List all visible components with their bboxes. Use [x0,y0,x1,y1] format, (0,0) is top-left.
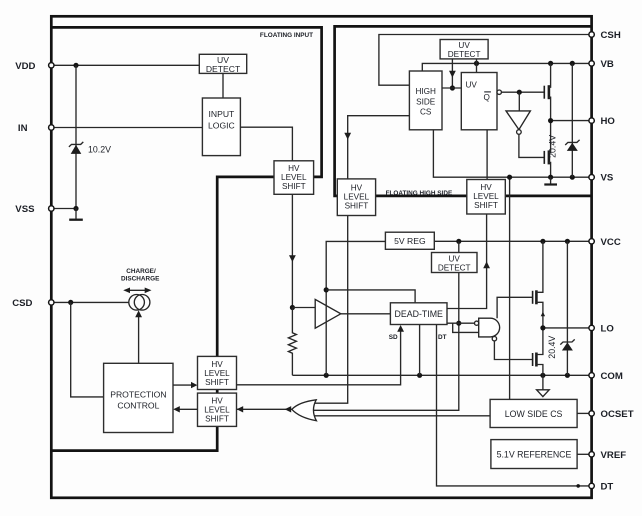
wire COM internal rail [292,374,591,376]
node inverter tap junction [517,90,522,95]
pin CSH [589,32,594,37]
transistor M3 low side upper FET [532,291,534,304]
pin VDD [49,63,54,68]
wire VSS stub [51,208,76,210]
svg-text:10.2V: 10.2V [88,145,111,155]
wire SD line to dead-time (arrow up) [237,331,401,385]
node HO junction [548,118,553,123]
svg-text:CSD: CSD [12,298,32,309]
svg-text:LO: LO [601,323,615,334]
svg-text:HIGH: HIGH [415,87,436,96]
wire CSD to protection control [71,302,104,397]
pin DT [589,483,594,488]
wire IN rail [51,127,202,129]
wire 5V bus to dead-time top [326,290,415,303]
svg-text:OCSET: OCSET [601,409,634,420]
svg-text:DISCHARGE: DISCHARGE [121,276,160,283]
wire inverter output to high side lower FET gate [519,134,544,157]
wire latch output to high side upper FET gate [501,91,544,93]
wire UV detect to input logic [222,73,224,98]
node DT stub [576,484,580,488]
transistor M1 high side upper FET [543,86,545,99]
svg-text:VCC: VCC [601,237,621,248]
wire low side zener branch VCC to COM [566,241,568,375]
wire high side zener branch VB to VS [571,63,573,177]
svg-text:DETECT: DETECT [448,50,481,59]
svg-text:LEVEL: LEVEL [204,369,230,378]
inverter U5 [518,92,520,111]
svg-text:FLOATING INPUT: FLOATING INPUT [260,32,313,39]
wire LO rail [543,327,592,329]
wire UV detect output to NAND and OR [313,273,458,411]
svg-text:SHIFT: SHIFT [474,201,498,210]
svg-text:CHARGE/: CHARGE/ [126,268,156,275]
svg-text:20.4V: 20.4V [547,135,557,158]
svg-text:HO: HO [601,116,616,127]
pin IN [49,125,54,130]
wire UV detect to VB [476,59,478,73]
svg-text:SHIFT: SHIFT [282,182,306,191]
svg-text:UV: UV [458,41,470,50]
HV level shift LS1 block [198,356,237,389]
svg-text:HV: HV [211,360,223,369]
node VS junctions [507,175,512,180]
wire zener branch VDD to VSS [75,65,77,208]
svg-text:DEAD-TIME: DEAD-TIME [395,309,444,319]
pin LO [589,325,594,330]
svg-text:VDD: VDD [15,61,35,72]
node CSD junction [68,300,73,305]
svg-text:5V REG: 5V REG [394,236,426,246]
wire VS to low side CS [509,177,511,399]
svg-text:SIDE: SIDE [416,97,436,106]
HIGH SIDE CS block [409,71,442,130]
wire dead-time to COM [419,325,421,376]
UV detect block (input side) [199,54,246,73]
node comparator input junction [290,305,295,310]
wire dead-time to high side HV level shift (arrow up) [447,214,487,309]
wire VREF [577,453,592,455]
wire protection control to current source (arrow up) [138,317,140,363]
svg-text:HV: HV [480,183,492,192]
current source charge/discharge [129,295,145,311]
node LO junction [540,325,545,330]
svg-text:LEVEL: LEVEL [204,406,230,415]
UV detect block (low side) [432,253,478,273]
svg-text:20.4V: 20.4V [547,336,557,359]
svg-text:LOW SIDE CS: LOW SIDE CS [505,409,563,419]
wire dead-time to NAND lower input [453,323,479,332]
svg-text:DT: DT [601,481,614,492]
charge/discharge double arrow [128,289,148,291]
svg-text:UV: UV [449,254,461,263]
node COM junctions [324,373,329,378]
IC outer boundary box [51,16,591,498]
zener diode 20.4V low side [560,339,574,344]
svg-text:SHIFT: SHIFT [205,378,229,387]
svg-text:DT: DT [438,334,447,341]
5.1V reference block [491,440,577,469]
OR gate U3 (pointing left) [292,400,317,421]
wire UV detect to latch input line (arrow down) [451,59,453,88]
pin VCC [589,239,594,244]
wire OR gate to HV level shift LS2 (arrows left) [237,408,292,410]
wire HO rail [551,120,592,122]
wire CSH to high side CS [379,35,592,86]
svg-text:SHIFT: SHIFT [345,202,369,211]
wire VCC rail [434,240,591,242]
svg-text:LEVEL: LEVEL [281,173,307,182]
wire protection control to HV level shift (arrow right) [173,384,192,386]
pin VS [589,175,594,180]
wire NAND to low side upper FET gate [497,297,532,318]
5V REG block [385,232,434,249]
wire high side CS to HV level shift HS1 (arrow down) [348,116,410,179]
latch output bubble [497,90,501,94]
svg-text:LEVEL: LEVEL [344,192,370,201]
wire high side fault to OR input [315,216,348,404]
wire dead-time DT input from DT pin [437,325,592,486]
buffer U1 [315,299,341,328]
protection control block [104,363,173,432]
node UV/NAND junction [456,321,461,326]
dead-time block [390,303,447,325]
node latch input junction [450,85,455,90]
wire dead-time to NAND bubble input [447,322,474,324]
wire low side CS to OR gate [314,415,491,417]
pin CSD [49,300,54,305]
node VSS junction [73,206,78,211]
zener diode 10.2V [69,142,83,147]
wire high side CS to latch [442,87,461,89]
svg-text:SHIFT: SHIFT [205,415,229,424]
wire CSD rail [51,301,129,303]
transistor M2 high side lower FET [543,151,545,164]
floating high side section boundary [335,26,592,196]
svg-text:CS: CS [420,108,432,117]
ground VSS [75,209,77,219]
svg-text:CSH: CSH [601,30,621,41]
svg-text:VSS: VSS [15,204,35,215]
pin HO [589,118,594,123]
svg-text:VREF: VREF [601,450,627,461]
svg-text:HV: HV [351,183,363,192]
wire 5V REG output bus [326,241,385,375]
UV detect block (high side) [440,40,488,59]
node 5V bus junction [324,287,329,292]
resistor pulldown [288,308,296,376]
svg-text:Q: Q [484,93,490,102]
svg-text:LEVEL: LEVEL [473,192,499,201]
wire latch to HV level shift HS2 [486,130,488,180]
wire OCSET [577,412,592,414]
pin VB [589,61,594,66]
wire VCC to UV detect [458,241,460,252]
ground below COM [542,375,544,389]
svg-text:LOGIC: LOGIC [208,120,235,130]
svg-text:HV: HV [211,397,223,406]
node VCC junctions [456,239,461,244]
pin VREF [589,452,594,457]
svg-text:IN: IN [18,123,28,134]
wire buffer output to dead-time [341,313,391,315]
svg-text:UV: UV [466,81,478,90]
input logic block [202,98,240,156]
floating input section boundary [51,27,321,450]
svg-text:PROTECTION: PROTECTION [110,390,166,400]
svg-text:DETECT: DETECT [438,263,471,272]
zener diode 20.4V high side [565,140,579,145]
HV level shift block (input side) [274,161,314,195]
svg-text:VB: VB [601,59,614,70]
HV level shift HS1 block [337,179,375,216]
wire VS rail [433,130,591,177]
pin VSS [49,206,54,211]
wire junction to buffer input [292,307,315,309]
LOW SIDE CS block [490,399,577,427]
svg-text:DETECT: DETECT [206,64,241,74]
svg-text:COM: COM [601,371,623,382]
svg-text:HV: HV [288,164,300,173]
node VB junctions [474,61,479,66]
svg-text:CONTROL: CONTROL [117,400,159,410]
ground below VS [550,177,552,184]
pin OCSET [589,411,594,416]
wire HV level shift LS2 to protection control (arrow left) [179,408,198,410]
svg-text:5.1V REFERENCE: 5.1V REFERENCE [497,449,572,459]
transistor M4 low side lower FET [532,353,534,366]
svg-text:INPUT: INPUT [209,109,236,119]
svg-text:FLOATING HIGH SIDE: FLOATING HIGH SIDE [386,190,453,197]
latch U4 UV/Q block [461,73,497,130]
wire VB rail [422,63,591,71]
NAND gate U2 [479,318,500,337]
wire HV level shift down to comparator (arrow down) [291,194,293,307]
node VDD-zener junction [73,63,78,68]
svg-text:VS: VS [601,173,614,184]
wire NAND output to low side lower FET gate [494,341,532,360]
HV level shift LS2 block [198,393,237,426]
HV level shift HS2 block [467,180,506,215]
svg-text:SD: SD [389,334,398,341]
wire input logic to HV level shift (input side) [240,127,292,161]
wire VDD rail [51,64,199,66]
pin COM [589,373,594,378]
